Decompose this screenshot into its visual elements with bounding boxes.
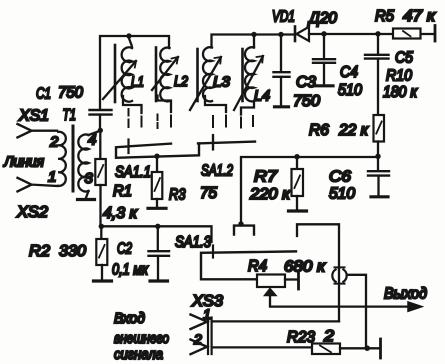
capacitor C5: [365, 34, 413, 67]
inductor L2: [152, 48, 189, 102]
svg-text:внешнего: внешнего: [114, 330, 169, 347]
output arrow: [384, 286, 427, 312]
svg-text:Вход: Вход: [114, 310, 145, 327]
node R23 right: [364, 345, 370, 351]
svg-text:1: 1: [203, 306, 211, 322]
resistor R2: [29, 226, 107, 279]
svg-text:L2: L2: [174, 73, 189, 90]
svg-text:L3: L3: [213, 74, 231, 91]
wire L1 bottom fork: [123, 96, 142, 113]
svg-text:T1: T1: [63, 107, 77, 124]
svg-text:R23: R23: [287, 329, 315, 346]
svg-text:XS2: XS2: [16, 204, 48, 221]
label input: [114, 310, 169, 363]
terminal bar right of R5: [434, 26, 437, 42]
terminal bar right of R4: [297, 273, 300, 290]
svg-text:R7: R7: [254, 169, 278, 186]
svg-text:R2: R2: [29, 243, 50, 260]
svg-text:L1: L1: [131, 74, 144, 91]
jack socket break contact: [332, 267, 346, 321]
switch SA1.2: [198, 135, 255, 180]
svg-text:510: 510: [338, 82, 362, 99]
svg-text:C1: C1: [36, 86, 51, 103]
svg-text:4,3 к: 4,3 к: [103, 205, 138, 222]
wire L3 bottom fork: [205, 96, 226, 112]
svg-text:VD1: VD1: [272, 9, 295, 26]
svg-text:2: 2: [193, 331, 202, 347]
switch contact dashes L3: [213, 116, 226, 150]
svg-text:SA1.1: SA1.1: [115, 164, 151, 181]
node R7 top: [294, 154, 299, 159]
wire SA1.3 to R6 node: [241, 157, 378, 224]
node L1 top: [126, 33, 131, 38]
capacitor C1: [36, 85, 112, 131]
svg-text:180 к: 180 к: [383, 84, 418, 101]
svg-text:220 к: 220 к: [249, 186, 292, 203]
inductor L4: [234, 35, 270, 111]
terminal bar right of R23: [379, 339, 382, 358]
label Линия: [3, 154, 44, 171]
svg-text:R1: R1: [113, 183, 132, 200]
switch contact dashes L1: [129, 109, 142, 153]
resistor R1: [95, 130, 138, 226]
potentiometer R4: [248, 258, 327, 296]
svg-text:510: 510: [329, 186, 355, 203]
capacitor C3: [274, 35, 321, 111]
ground C4: [315, 84, 333, 87]
svg-text:R3: R3: [169, 187, 186, 204]
ground C2: [150, 279, 168, 282]
switch contact dashes L4: [241, 116, 253, 128]
svg-text:680 к: 680 к: [284, 259, 327, 276]
svg-text:C6: C6: [329, 169, 351, 186]
svg-text:Линия: Линия: [3, 154, 44, 171]
svg-text:Д20: Д20: [307, 10, 337, 27]
svg-text:R5: R5: [375, 8, 394, 25]
inductor L3: [190, 47, 231, 110]
svg-text:R6: R6: [309, 122, 329, 139]
ground T1: [78, 198, 95, 201]
resistor R7: [249, 157, 303, 210]
wire L2 bottom fork: [158, 96, 172, 113]
svg-text:2: 2: [49, 134, 59, 151]
node L4 top: [251, 32, 256, 37]
svg-text:75: 75: [200, 185, 217, 202]
svg-text:SA1.3: SA1.3: [175, 234, 211, 251]
svg-text:C5: C5: [395, 50, 413, 67]
wire contact to jack: [297, 224, 339, 268]
wire R6 to node: [377, 142, 379, 157]
svg-text:XS1: XS1: [18, 108, 49, 125]
svg-text:R10: R10: [386, 68, 412, 85]
svg-text:L4: L4: [254, 88, 270, 105]
wire C5 to R6: [377, 59, 379, 115]
transformer T1: [48, 107, 100, 198]
wire R4 wiper to output: [270, 296, 409, 307]
node R2 top: [99, 224, 104, 229]
svg-text:47 к: 47 к: [403, 8, 437, 25]
resistor R23: [287, 328, 379, 354]
wire jack to R23 node: [347, 275, 366, 348]
node C2 top: [155, 224, 160, 229]
connector XS3: [191, 293, 224, 354]
wire XS3 pin1: [212, 320, 339, 322]
svg-text:C3: C3: [296, 74, 316, 91]
wire top rail group2: [212, 35, 295, 48]
svg-text:750: 750: [58, 85, 83, 102]
svg-text:сигнала: сигнала: [114, 346, 163, 363]
node C5 top: [375, 31, 380, 36]
node C3 top: [278, 32, 283, 37]
label R10: [383, 68, 418, 102]
svg-text:3: 3: [85, 170, 94, 187]
svg-text:2: 2: [323, 328, 334, 345]
svg-text:1: 1: [48, 169, 56, 186]
switch SA1.3 contacts center: [234, 226, 254, 235]
node R6 bottom: [375, 154, 380, 159]
svg-text:C2: C2: [117, 241, 132, 258]
svg-text:22 к: 22 к: [338, 122, 369, 139]
node R3 top: [154, 154, 159, 159]
switch SA1.1: [115, 143, 199, 181]
ground C3: [275, 105, 289, 108]
switch SA1.3: [175, 234, 296, 279]
svg-text:C4: C4: [340, 64, 358, 81]
wire XS3 pin2: [212, 346, 312, 348]
ground R7: [289, 209, 307, 212]
wire R2 node to SA1.3 contact: [101, 226, 211, 242]
inductor L1: [103, 35, 144, 102]
capacitor C2: [112, 226, 169, 279]
ground R3: [148, 207, 166, 210]
svg-text:0,1 мк: 0,1 мк: [112, 262, 149, 279]
svg-text:SA1.2: SA1.2: [201, 163, 233, 180]
wire L4 bottom fork: [241, 101, 254, 115]
ground C6: [371, 195, 388, 198]
node SA1.3 center contact: [238, 221, 243, 226]
svg-text:750: 750: [293, 93, 320, 110]
wire top rail group1: [100, 36, 169, 109]
capacitor C6: [329, 156, 389, 202]
resistor R6: [309, 115, 384, 142]
svg-text:Выход: Выход: [384, 286, 427, 303]
resistor R5: [375, 8, 437, 39]
node T1 top: [98, 128, 103, 133]
svg-text:330: 330: [59, 243, 86, 260]
switch contact dashes L2: [158, 115, 172, 129]
ground R2: [94, 279, 112, 282]
resistor R3: [152, 156, 217, 207]
node C4 top: [321, 31, 326, 36]
svg-text:R4: R4: [248, 258, 267, 275]
capacitor C4: [313, 34, 362, 99]
connector XS1: [18, 108, 58, 138]
svg-text:4: 4: [88, 132, 96, 149]
diode VD1: [272, 9, 337, 42]
wire top rail right: [309, 33, 433, 35]
connector XS2: [16, 178, 58, 221]
